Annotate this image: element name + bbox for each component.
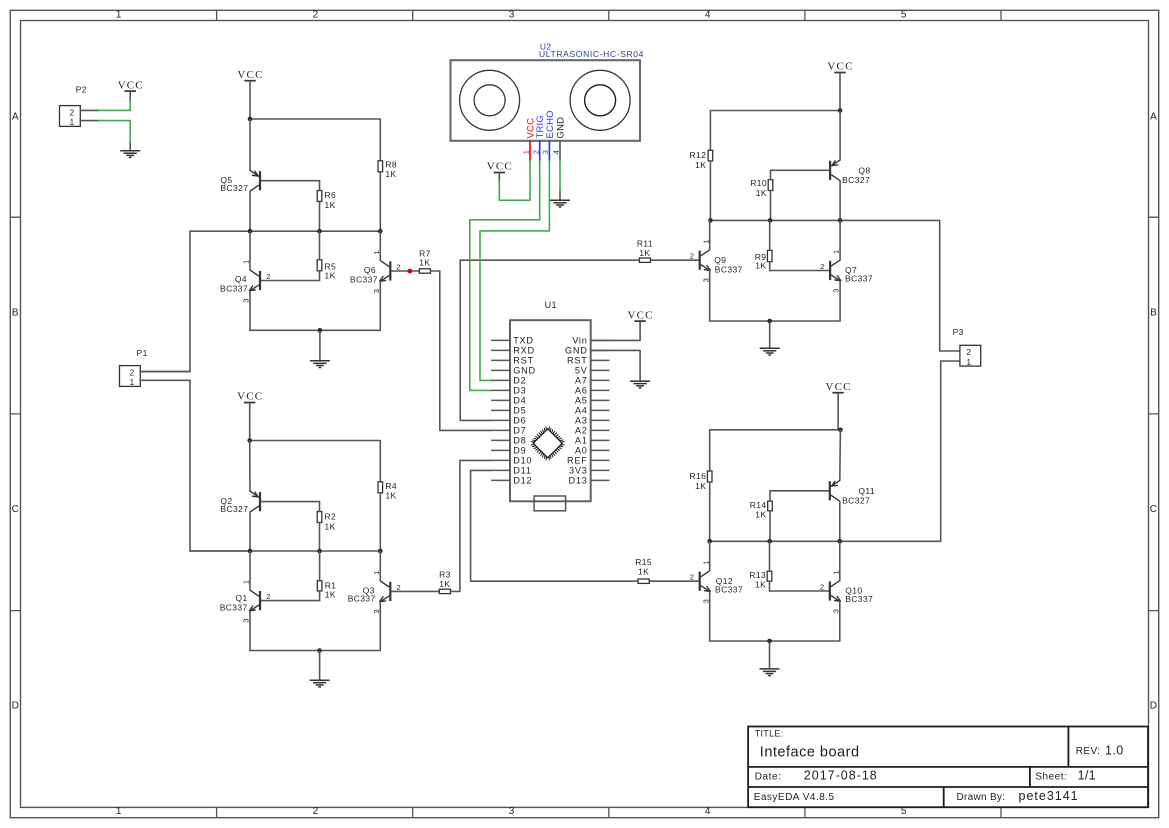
- VCC symbol upper-right block: [827, 61, 853, 111]
- svg-text:Sheet:: Sheet:: [1035, 772, 1067, 783]
- svg-text:1K: 1K: [695, 481, 706, 491]
- svg-text:R16: R16: [690, 471, 707, 481]
- VCC symbol at P2: [118, 79, 144, 101]
- svg-text:D13: D13: [568, 476, 587, 486]
- svg-text:BC337: BC337: [348, 594, 376, 604]
- wire R7 to U1 D7: [431, 271, 492, 430]
- svg-text:BC327: BC327: [220, 504, 248, 514]
- wire Q11 base to R14: [770, 490, 829, 492]
- svg-text:2: 2: [130, 368, 135, 378]
- svg-text:Q4: Q4: [235, 274, 247, 284]
- transistor Q9: [700, 250, 743, 274]
- wire Q9 emitter: [709, 271, 711, 321]
- wire R5 top lead: [319, 231, 321, 260]
- svg-text:4: 4: [552, 150, 561, 154]
- svg-text:GND: GND: [556, 117, 567, 139]
- svg-text:BC337: BC337: [220, 602, 248, 612]
- svg-text:Vin: Vin: [572, 336, 587, 346]
- svg-text:VCC: VCC: [627, 309, 653, 321]
- wire Q1 base to R1: [261, 600, 320, 602]
- wire VCC rail upper-right: [710, 111, 840, 151]
- transistor Q7: [830, 260, 873, 283]
- svg-text:1K: 1K: [755, 580, 766, 590]
- wire R14 bottom lead: [769, 511, 771, 542]
- wire GND net from P2 pin 1: [99, 121, 130, 143]
- ground lower-left block: [310, 651, 330, 687]
- svg-text:2: 2: [397, 263, 401, 272]
- VCC symbol upper-left block: [237, 69, 263, 119]
- junction R14/R13: [767, 539, 772, 544]
- svg-text:1K: 1K: [385, 491, 396, 501]
- wire U2 GND to ground: [559, 161, 561, 191]
- svg-text:R14: R14: [750, 500, 767, 510]
- svg-text:D12: D12: [513, 476, 532, 486]
- wire R6 bottom lead: [319, 201, 321, 231]
- wire Q11 collector: [839, 501, 841, 541]
- wire Q12 emitter: [709, 592, 711, 641]
- svg-text:BC337: BC337: [715, 264, 743, 274]
- resistor R7: [419, 249, 431, 273]
- svg-text:VCC: VCC: [118, 79, 144, 91]
- svg-text:ULTRASONIC-HC-SR04: ULTRASONIC-HC-SR04: [539, 49, 644, 59]
- svg-text:D: D: [1150, 701, 1157, 712]
- svg-text:VCC: VCC: [237, 69, 263, 81]
- svg-text:Q6: Q6: [364, 265, 376, 275]
- svg-text:BC337: BC337: [715, 585, 743, 595]
- resistor R2: [317, 512, 336, 532]
- svg-text:4: 4: [705, 10, 711, 21]
- svg-text:2: 2: [313, 806, 319, 817]
- U2 pin 4 stub: [559, 141, 561, 161]
- svg-text:BC337: BC337: [220, 284, 248, 294]
- wire U2 VCC to supply: [499, 161, 530, 200]
- resistor R11: [637, 238, 653, 262]
- svg-text:R15: R15: [635, 557, 652, 567]
- svg-text:D3: D3: [513, 386, 526, 396]
- svg-text:A2: A2: [575, 426, 588, 436]
- svg-text:D2: D2: [513, 376, 526, 386]
- svg-text:2: 2: [313, 10, 319, 21]
- resistor R6: [317, 190, 336, 210]
- resistor R8: [378, 160, 397, 179]
- svg-text:Drawn By:: Drawn By:: [957, 792, 1006, 803]
- svg-text:R2: R2: [325, 512, 337, 522]
- svg-text:1K: 1K: [439, 579, 450, 589]
- svg-text:C: C: [1150, 504, 1157, 515]
- svg-text:1K: 1K: [639, 248, 650, 258]
- wire mid rail lower-left: [190, 550, 380, 552]
- junction lower-right emitter rail / ground tap: [767, 639, 772, 644]
- wire R10 bottom lead: [770, 191, 772, 221]
- svg-text:A: A: [1150, 112, 1157, 123]
- svg-text:2: 2: [70, 108, 75, 118]
- junction R16/Q12 collector: [707, 539, 712, 544]
- svg-text:Inteface board: Inteface board: [760, 744, 860, 760]
- svg-text:RST: RST: [513, 356, 534, 366]
- svg-text:RST: RST: [567, 356, 588, 366]
- wire R13 bottom lead: [769, 581, 771, 591]
- wire Q5 emitter: [249, 119, 251, 170]
- svg-text:4: 4: [705, 806, 711, 817]
- junction emitter rail / ground tap: [318, 328, 323, 333]
- wire R9 top lead: [769, 220, 771, 250]
- U2 pin 2 stub: [539, 141, 541, 161]
- wire R10 top lead: [770, 170, 772, 179]
- svg-text:2: 2: [397, 583, 401, 592]
- wire VCC net from P2 pin 2: [99, 101, 130, 111]
- wire Q7 base to R9: [770, 270, 830, 272]
- svg-text:3: 3: [509, 10, 515, 21]
- svg-text:R3: R3: [439, 569, 451, 579]
- ground at U2: [550, 191, 570, 207]
- svg-text:VCC: VCC: [825, 381, 851, 393]
- svg-text:R10: R10: [750, 178, 767, 188]
- junction R2/R1: [317, 549, 322, 554]
- VCC symbol lower-right block: [825, 381, 851, 430]
- P1 pin 2 stub: [140, 371, 190, 373]
- svg-text:P1: P1: [137, 348, 148, 358]
- svg-text:C: C: [12, 504, 19, 515]
- wire Q8 base to R10: [771, 169, 830, 171]
- wire Q6 collector: [379, 231, 381, 260]
- svg-text:BC327: BC327: [220, 183, 248, 193]
- svg-text:1K: 1K: [325, 200, 336, 210]
- svg-text:1K: 1K: [755, 260, 766, 270]
- resistor R15: [635, 557, 652, 583]
- wire mid rail upper-left (node to P1.2): [190, 230, 380, 232]
- transistor Q1: [220, 590, 260, 612]
- wire Q7 collector: [839, 220, 841, 260]
- wire Q7 emitter: [839, 281, 841, 321]
- wire Q2 collector: [249, 512, 251, 551]
- wire R6 top lead: [319, 181, 321, 191]
- U1 chip logo: [531, 426, 565, 460]
- junction VCC rail / Q2 emitter: [247, 438, 252, 443]
- svg-text:GND: GND: [565, 346, 588, 356]
- svg-text:1K: 1K: [755, 510, 766, 520]
- transistor Q2: [220, 491, 260, 514]
- svg-text:A7: A7: [575, 376, 588, 386]
- svg-text:1K: 1K: [385, 169, 396, 179]
- svg-text:2017-08-18: 2017-08-18: [804, 769, 878, 783]
- svg-text:A4: A4: [575, 406, 588, 416]
- wire Q5 base to R6: [261, 180, 320, 182]
- U1 pin name labels: [513, 336, 588, 486]
- svg-text:A0: A0: [575, 446, 588, 456]
- connector P1: [120, 366, 141, 388]
- svg-text:REF: REF: [567, 456, 588, 466]
- wire Q4 emitter: [249, 291, 251, 330]
- transistor Q4: [220, 270, 260, 294]
- svg-text:3: 3: [541, 150, 550, 154]
- wire U2 ECHO to U1 D2: [480, 161, 549, 380]
- svg-text:D7: D7: [513, 426, 526, 436]
- wire Q10 emitter: [839, 601, 841, 641]
- svg-text:RXD: RXD: [513, 346, 535, 356]
- svg-text:VCC: VCC: [827, 61, 853, 73]
- ground at P2: [120, 142, 140, 157]
- junction R12/Q9 collector: [708, 218, 713, 223]
- VCC symbol for U2: [487, 161, 513, 181]
- title block frame: [748, 727, 1148, 808]
- svg-text:2: 2: [266, 592, 270, 601]
- wire R13 top lead: [769, 541, 771, 571]
- wire VCC rail lower-right: [710, 430, 841, 471]
- wire Q11 emitter: [839, 430, 842, 481]
- wire R1 bottom lead: [319, 591, 321, 601]
- svg-text:1K: 1K: [419, 258, 430, 268]
- wire Q1 emitter: [249, 611, 251, 651]
- svg-text:BC337: BC337: [845, 594, 873, 604]
- resistor R16: [690, 471, 712, 491]
- wire emitter rail upper-left: [250, 329, 380, 331]
- wire Q2 emitter: [249, 441, 251, 492]
- junction upper-right emitter rail / ground tap: [767, 319, 772, 324]
- svg-text:1K: 1K: [325, 522, 336, 532]
- wire mid rail upper-right to P3 pin 2: [710, 220, 960, 351]
- svg-text:A3: A3: [575, 416, 588, 426]
- wire mid rail lower-right to P3 pin 1: [710, 361, 960, 541]
- VCC symbol lower-left block: [237, 391, 263, 441]
- svg-text:BC337: BC337: [350, 275, 378, 285]
- svg-text:3V3: 3V3: [569, 466, 588, 476]
- svg-text:1: 1: [70, 117, 75, 127]
- wire R1 top lead: [319, 551, 321, 581]
- svg-text:5V: 5V: [575, 366, 588, 376]
- wire R11 to U1 D6: [460, 260, 639, 420]
- svg-text:1: 1: [522, 150, 531, 154]
- junction Q11/Q10 collectors: [838, 539, 843, 544]
- svg-text:VCC: VCC: [237, 391, 263, 403]
- wire emitter rail upper-right: [710, 320, 840, 322]
- svg-text:1: 1: [116, 10, 122, 21]
- wire Q4 collector: [249, 231, 251, 270]
- svg-text:R11: R11: [637, 238, 653, 248]
- transistor Q3: [348, 581, 391, 604]
- svg-text:B: B: [12, 307, 19, 318]
- svg-text:1: 1: [966, 357, 971, 367]
- svg-text:ECHO: ECHO: [545, 110, 556, 138]
- resistor R5: [317, 260, 336, 281]
- transistor Q11: [830, 480, 875, 505]
- VCC symbol at U1: [627, 309, 653, 321]
- svg-text:3: 3: [509, 806, 515, 817]
- transistor Q8: [830, 160, 870, 185]
- wire R9 bottom lead: [769, 262, 771, 271]
- wire emitter rail lower-left: [250, 650, 380, 652]
- svg-text:pete3141: pete3141: [1019, 789, 1079, 803]
- U1 USB tab: [534, 496, 566, 511]
- svg-text:A5: A5: [575, 396, 588, 406]
- junction R10/R9: [768, 218, 773, 223]
- U2 pin 1 stub: [529, 141, 531, 161]
- svg-text:A6: A6: [575, 386, 588, 396]
- wire mid rail down to P1 pin 2: [141, 231, 191, 371]
- ground lower-right block: [760, 641, 780, 676]
- svg-text:1K: 1K: [638, 567, 649, 577]
- wire U2 TRIG to U1 D3: [470, 161, 540, 390]
- transistor Q10: [830, 581, 873, 604]
- svg-text:Q8: Q8: [858, 165, 870, 175]
- wire U1 GND to ground: [591, 350, 640, 381]
- P2 pin 1 stub: [80, 120, 99, 122]
- junction R8/Q6 collector: [378, 229, 383, 234]
- U1 pin stubs: [491, 340, 609, 480]
- svg-text:2: 2: [531, 150, 540, 154]
- connector P2: [60, 106, 81, 128]
- U1 body outline: [510, 320, 591, 501]
- wire Q12 base to R15: [649, 580, 699, 582]
- svg-text:BC327: BC327: [842, 495, 870, 505]
- resistor R12: [690, 150, 713, 170]
- junction VCC rail / Q8 emitter: [838, 108, 843, 113]
- ground at U1: [630, 381, 650, 388]
- svg-text:B: B: [1150, 307, 1157, 318]
- wire R16 bottom lead: [709, 482, 711, 541]
- junction Q5/Q4 collectors: [248, 229, 253, 234]
- wire R2 top lead: [319, 502, 321, 512]
- junction VCC rail / Q11 emitter: [838, 428, 843, 433]
- svg-text:5: 5: [901, 10, 907, 21]
- wire Q2 base to R2: [261, 501, 320, 503]
- svg-text:EasyEDA V4.8.5: EasyEDA V4.8.5: [754, 792, 835, 803]
- wire Q9 collector: [709, 220, 711, 249]
- svg-text:1/1: 1/1: [1078, 769, 1096, 783]
- svg-text:BC327: BC327: [842, 175, 870, 185]
- resistor R10: [750, 178, 773, 198]
- wire Q9 base to R11: [650, 259, 698, 261]
- svg-text:D: D: [12, 701, 19, 712]
- junction VCC rail / Q5 emitter: [248, 117, 253, 122]
- wire Q8 collector: [839, 181, 841, 221]
- wire Q10 base to R13: [770, 590, 829, 592]
- svg-text:A1: A1: [575, 436, 588, 446]
- svg-text:R6: R6: [325, 190, 337, 200]
- svg-text:A: A: [12, 112, 19, 123]
- junction R4/Q3 collector: [378, 549, 383, 554]
- svg-text:2: 2: [820, 583, 824, 592]
- ground upper-left block: [310, 330, 330, 367]
- svg-text:D6: D6: [513, 416, 526, 426]
- svg-text:TXD: TXD: [513, 336, 534, 346]
- svg-text:R4: R4: [385, 481, 397, 491]
- wire Q3 emitter: [379, 602, 381, 651]
- transistor Q5: [220, 170, 260, 193]
- P2 pin 2 stub: [80, 109, 99, 111]
- ground upper-right block: [760, 321, 780, 355]
- svg-text:GND: GND: [513, 366, 536, 376]
- junction R6/R5: [317, 229, 322, 234]
- svg-text:U1: U1: [545, 300, 557, 310]
- svg-text:2: 2: [266, 272, 270, 281]
- svg-text:1: 1: [116, 806, 122, 817]
- svg-text:2: 2: [966, 347, 971, 357]
- svg-text:1K: 1K: [325, 271, 336, 281]
- wire emitter rail lower-right: [710, 640, 840, 642]
- svg-text:2: 2: [690, 252, 694, 261]
- wire Q1 collector: [249, 551, 251, 590]
- wire Q6 emitter: [379, 281, 381, 330]
- wire R4 bottom lead: [379, 493, 381, 551]
- svg-text:R13: R13: [749, 570, 766, 580]
- wire R14 top lead: [769, 491, 771, 501]
- wire R2 bottom lead: [319, 523, 321, 552]
- wire Q5 collector: [249, 191, 251, 231]
- svg-text:1: 1: [130, 377, 135, 387]
- svg-text:BC337: BC337: [845, 274, 873, 284]
- transistor Q12: [700, 571, 743, 595]
- connector P3: [960, 345, 981, 367]
- resistor R9: [755, 250, 772, 270]
- resistor R13: [749, 570, 771, 590]
- wire VCC rail upper-left: [250, 119, 380, 161]
- svg-text:1.0: 1.0: [1105, 744, 1124, 758]
- wire VCC rail lower-left: [250, 441, 381, 482]
- svg-text:R12: R12: [690, 150, 707, 160]
- wire Q10 collector: [839, 541, 841, 580]
- P1 pin 1 wire down to lower mid rail: [140, 380, 250, 551]
- junction Q2/Q1 collectors: [248, 549, 253, 554]
- wire R12 bottom lead: [709, 161, 711, 221]
- svg-text:VCC: VCC: [487, 161, 513, 173]
- svg-text:Date:: Date:: [755, 772, 782, 783]
- svg-text:P2: P2: [76, 85, 87, 95]
- wire R5 bottom lead: [319, 271, 321, 281]
- wire Q3 base to R3: [391, 590, 439, 592]
- wire Q8 emitter: [839, 111, 841, 161]
- wire R8 bottom lead: [379, 172, 381, 231]
- svg-text:P3: P3: [953, 327, 964, 337]
- wire Q4 base to R5: [261, 280, 320, 282]
- wire Q3 collector: [379, 551, 381, 581]
- svg-text:D5: D5: [513, 406, 526, 416]
- svg-text:2: 2: [820, 262, 824, 271]
- wire R3 to U1 D10: [450, 460, 491, 591]
- wire R15 to U1 D11: [471, 470, 638, 581]
- svg-text:REV:: REV:: [1076, 746, 1101, 757]
- resistor R14: [750, 500, 773, 520]
- svg-text:1K: 1K: [695, 160, 706, 170]
- svg-text:D11: D11: [513, 466, 531, 476]
- junction Q8/Q7 collectors: [838, 218, 843, 223]
- wire U1 Vin to VCC: [591, 321, 640, 340]
- U2 pin 3 stub: [548, 141, 550, 161]
- wire Q12 collector: [709, 541, 711, 571]
- resistor R3: [439, 569, 451, 593]
- svg-text:Q11: Q11: [858, 486, 875, 496]
- svg-text:D8: D8: [513, 436, 526, 446]
- ultrasonic sensor U2 body: [451, 60, 641, 141]
- svg-text:D4: D4: [513, 396, 526, 406]
- resistor R1: [317, 580, 336, 599]
- svg-text:TITLE:: TITLE:: [755, 728, 784, 738]
- junction lower emitter rail / ground tap: [317, 648, 322, 653]
- wire Q6 base to R7: [391, 270, 419, 272]
- svg-text:D9: D9: [513, 446, 526, 456]
- red net-highlight dot at Q6 base: [408, 269, 413, 274]
- svg-text:D10: D10: [513, 456, 532, 466]
- svg-text:1K: 1K: [325, 589, 336, 599]
- transistor Q6: [350, 261, 390, 285]
- svg-text:2: 2: [690, 573, 694, 582]
- svg-text:1K: 1K: [756, 188, 767, 198]
- resistor R4: [378, 481, 397, 501]
